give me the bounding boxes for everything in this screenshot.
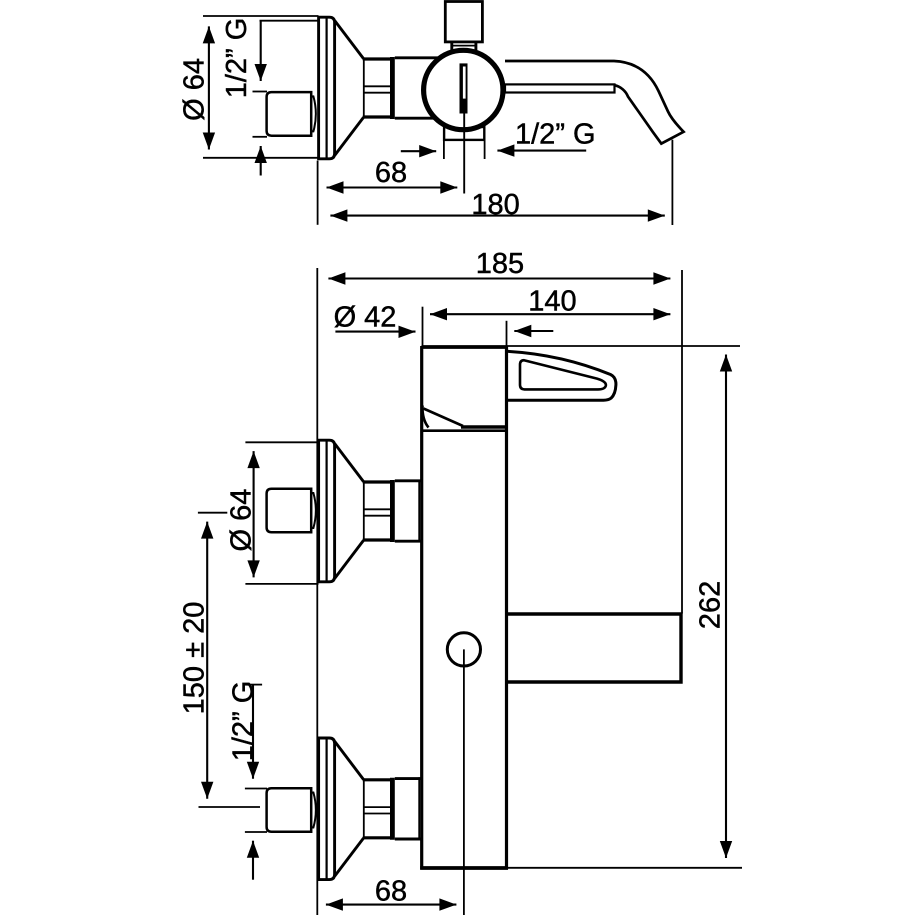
valve slot	[460, 63, 468, 113]
Ø42 leader line	[335, 331, 415, 333]
beak bottom thick line	[461, 425, 506, 428]
dim up arrow below pipe	[260, 146, 262, 176]
spout tip extension line	[671, 140, 673, 225]
spout outlet beak: arc	[422, 406, 428, 428]
dim 185	[328, 277, 670, 279]
left wall extension line	[316, 268, 318, 915]
body right edge	[505, 346, 508, 870]
knob neck	[450, 42, 453, 53]
handle inner cutout	[520, 360, 606, 389]
dim 140	[430, 313, 670, 315]
bottom extension line (262)	[508, 867, 742, 869]
spout underside band	[505, 84, 615, 92]
svg-text:180: 180	[471, 189, 519, 221]
svg-text:262: 262	[695, 581, 727, 629]
svg-text:1/2” G: 1/2” G	[228, 681, 260, 762]
screw circle	[447, 633, 480, 666]
valve body circle	[424, 50, 503, 129]
spout (bent tube)	[505, 61, 684, 144]
dim Ø64 line + arrows (front)	[253, 451, 255, 577]
dim 68	[327, 186, 458, 188]
lower inlet pipe	[267, 788, 316, 832]
valve bottom connector	[444, 127, 484, 140]
left pointing arrow with label 1/2" G	[497, 150, 586, 152]
centerline below valve	[463, 114, 465, 194]
svg-text:1/2” G: 1/2” G	[515, 119, 596, 151]
dim 1/2G down arrow	[260, 22, 262, 82]
dim 1/2G below valve: extension lines	[443, 140, 445, 159]
shower outlet block (right)	[506, 614, 681, 682]
svg-text:185: 185	[476, 248, 524, 280]
svg-text:1/2” G: 1/2” G	[221, 18, 253, 99]
body bottom edge	[420, 866, 508, 870]
svg-text:Ø 42: Ø 42	[334, 301, 397, 333]
upper wall flange	[319, 440, 393, 582]
adapter between flange and valve body	[395, 56, 445, 59]
body top edge	[421, 346, 507, 349]
body joint line	[421, 429, 507, 432]
lower pipe extension ticks	[245, 788, 267, 790]
svg-text:150 ± 20: 150 ± 20	[179, 602, 211, 715]
dim Ø64 line + arrows	[208, 26, 210, 149]
svg-text:68: 68	[375, 875, 407, 907]
dim 1/2G tick + down arrow (front)	[247, 684, 262, 686]
svg-text:68: 68	[375, 157, 407, 189]
centerline	[463, 649, 465, 915]
inlet pipe (top view, offset below axis)	[267, 92, 316, 136]
upper inlet pipe	[267, 489, 316, 533]
extension line body left top	[422, 307, 424, 347]
thin reference line at body top (for 262)	[422, 345, 740, 347]
dim 262	[725, 355, 727, 859]
dim up arrow below lower pipe	[252, 841, 254, 880]
beak diagonal	[424, 409, 464, 427]
knob on top of valve	[445, 2, 482, 42]
dim 180	[330, 215, 664, 217]
dim 150±20 line + arrows	[206, 522, 208, 799]
svg-text:Ø 64: Ø 64	[226, 489, 258, 552]
extension line body right top	[506, 321, 508, 347]
pipe extension ticks	[253, 91, 268, 93]
right pointing arrow	[401, 150, 436, 152]
dim Ø64 extension lines	[203, 15, 319, 17]
upper flange adapter	[395, 479, 423, 482]
handle (lever)	[507, 351, 616, 400]
wall flange (top view)	[319, 17, 393, 159]
lower wall flange	[319, 738, 393, 880]
right extension line	[681, 270, 683, 614]
dim 150±20: center ticks	[198, 512, 227, 514]
wall extension line below flange	[317, 161, 319, 225]
dim 68 (front)	[326, 904, 457, 906]
svg-text:Ø 64: Ø 64	[179, 58, 211, 121]
lower flange adapter	[395, 777, 423, 780]
svg-text:140: 140	[528, 286, 576, 318]
body left edge	[420, 346, 423, 870]
small left arrow to body right edge	[514, 330, 553, 332]
dim Ø64 extension lines (front)	[245, 441, 318, 443]
